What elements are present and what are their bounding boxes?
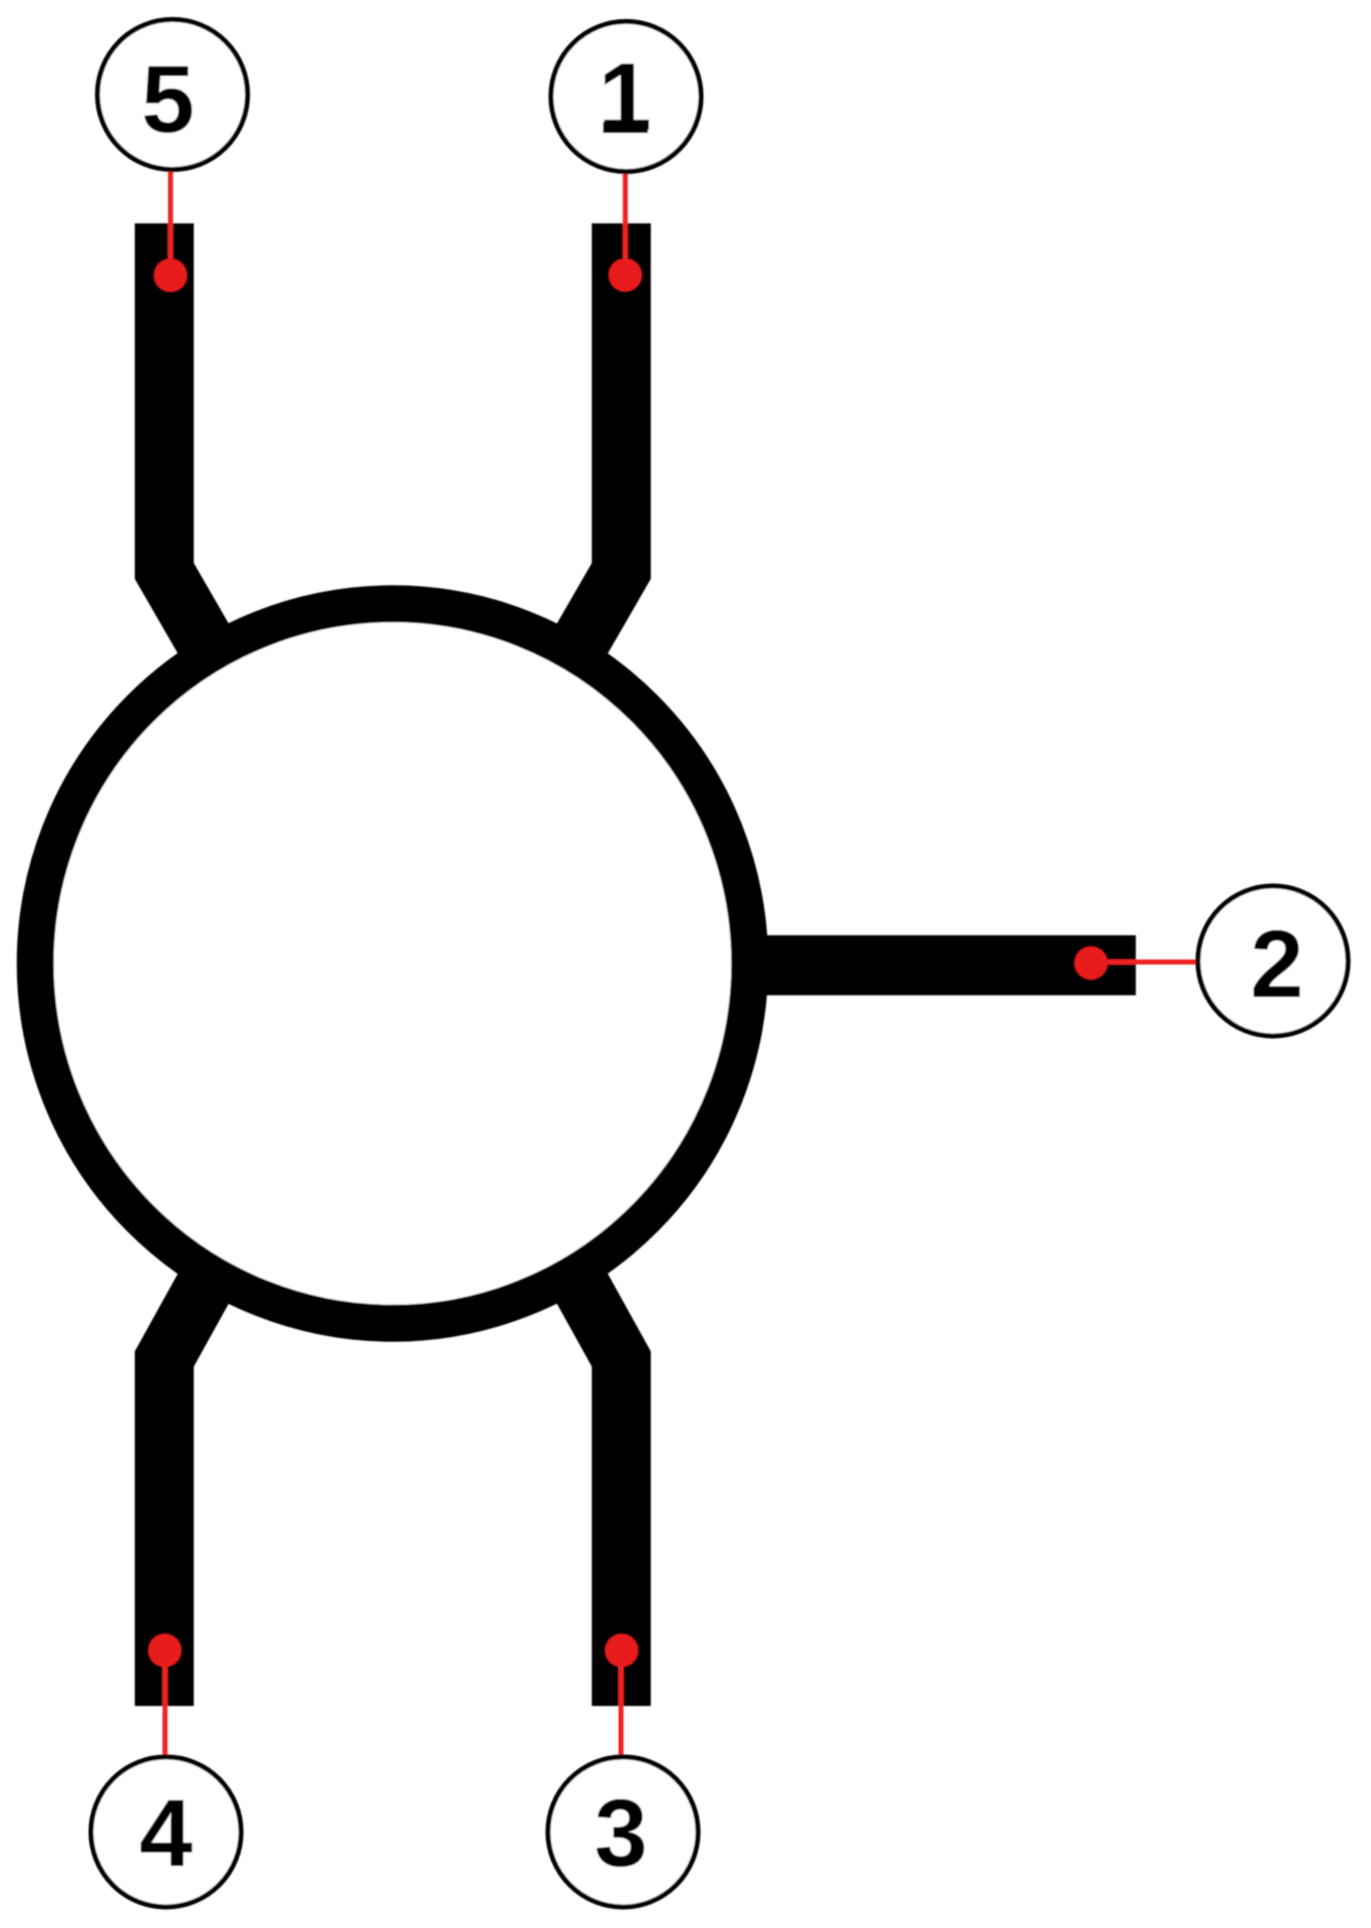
port label circle 1 — [551, 22, 701, 172]
port label circle 3 — [548, 1757, 698, 1907]
wire port 4 trace — [164, 1260, 219, 1706]
wire port 2 trace — [745, 935, 1136, 995]
leader line port 3 — [619, 1650, 624, 1755]
feed point dot port 2 — [1075, 947, 1108, 980]
svg-text:5: 5 — [141, 46, 194, 153]
svg-text:1: 1 — [598, 44, 651, 151]
feed point dot port 1 — [609, 259, 642, 292]
ring resonator body — [35, 604, 750, 1324]
port label circle 4 — [91, 1757, 241, 1907]
wire port 1 trace — [566, 223, 621, 666]
port label circle 2 — [1198, 886, 1348, 1036]
wire port 3 trace — [566, 1260, 621, 1706]
leader line port 2 — [1091, 960, 1196, 965]
leader line port 4 — [163, 1650, 168, 1755]
feed point dot port 3 — [605, 1634, 638, 1667]
svg-text:2: 2 — [1250, 911, 1303, 1018]
feed point dot port 5 — [154, 259, 187, 292]
port label circle 5 — [98, 20, 248, 170]
leader line port 5 — [168, 172, 173, 275]
svg-text:4: 4 — [139, 1780, 192, 1887]
feed point dot port 4 — [148, 1634, 181, 1667]
svg-text:3: 3 — [594, 1780, 647, 1887]
leader line port 1 — [623, 173, 628, 275]
wire port 5 trace — [164, 223, 219, 666]
